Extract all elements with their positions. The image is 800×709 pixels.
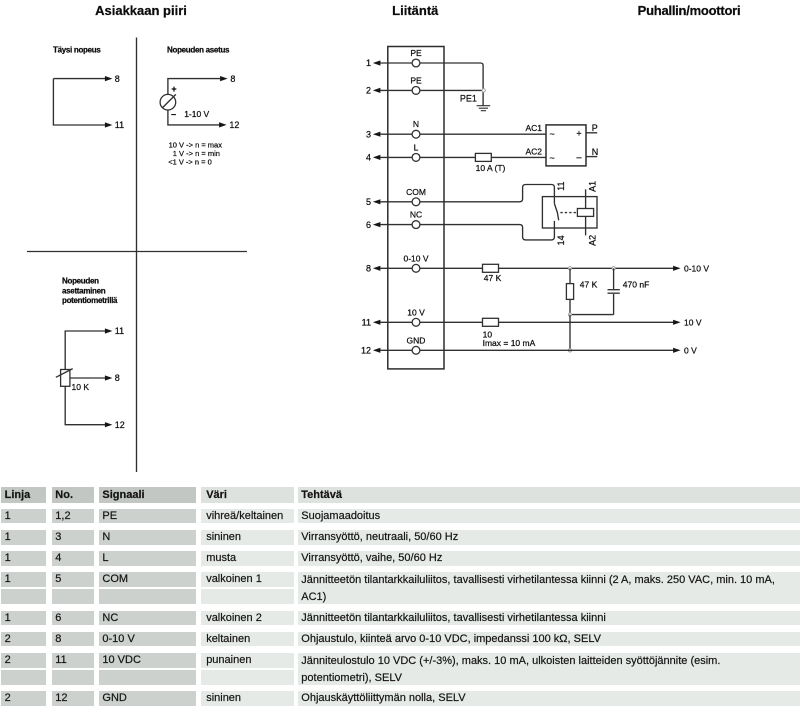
svg-text:Puhallin/moottori: Puhallin/moottori	[638, 3, 741, 18]
svg-text:A1: A1	[587, 181, 597, 192]
svg-text:–: –	[171, 109, 176, 119]
series resistor 47 K	[483, 264, 499, 272]
svg-text:8: 8	[366, 264, 371, 274]
svg-text:8: 8	[115, 373, 120, 383]
svg-text:11: 11	[115, 120, 124, 130]
svg-text:11: 11	[362, 318, 371, 328]
wire: fuse to rectifier AC2	[491, 156, 546, 158]
svg-text:+: +	[171, 84, 176, 94]
table row 4: COM (two lines)	[1, 572, 46, 587]
svg-text:10 V: 10 V	[407, 307, 425, 317]
svg-text:14: 14	[556, 235, 566, 245]
wire: NC terminal 6 to relay pin 14	[444, 225, 554, 240]
table row 6: 0-10 V	[1, 632, 46, 647]
svg-text:11: 11	[556, 181, 566, 190]
svg-text:8: 8	[115, 74, 120, 84]
svg-text:2: 2	[366, 86, 371, 96]
arrowhead to 12	[219, 122, 227, 127]
svg-text:10 K: 10 K	[72, 382, 90, 392]
series resistor 10	[483, 318, 499, 326]
node PE1 junction	[482, 89, 485, 92]
junction at shunt resistor top	[568, 267, 571, 270]
terminal circle 6	[412, 221, 420, 229]
wire: source bottom to 12	[168, 110, 220, 125]
junction at capacitor top	[612, 267, 615, 270]
terminal circle 4	[412, 154, 420, 162]
svg-text:PE: PE	[410, 48, 422, 58]
wire: pot wiper to 8	[70, 377, 105, 379]
relay contact box K1	[542, 197, 597, 228]
wire: full-speed bridge 8 to 11	[53, 79, 105, 125]
svg-text:Täysi nopeus: Täysi nopeus	[53, 46, 101, 55]
svg-text:<1 V -> n = 0: <1 V -> n = 0	[168, 157, 212, 166]
wire: P output stub	[586, 132, 597, 134]
wire: terminal 11 to series resistor	[444, 321, 483, 323]
wire: terminal 12 to 0 V output	[444, 349, 674, 351]
shunt resistor 47 K vertical	[569, 268, 571, 314]
arrowhead to 11	[105, 122, 113, 127]
fuse F1 10 A (T)	[475, 153, 491, 161]
terminal circle 8	[412, 264, 420, 272]
terminal 6 wire and arrow	[380, 224, 444, 226]
terminal strip box X1	[388, 47, 444, 369]
terminal 5 wire and arrow	[380, 201, 444, 203]
voltage source slash	[163, 94, 176, 107]
table row 2: N	[1, 530, 46, 545]
terminal circle 3	[412, 130, 420, 138]
wire: N output stub	[586, 156, 597, 158]
table row 8: GND	[1, 691, 46, 706]
svg-text:L: L	[414, 142, 419, 152]
relay pin 11 stub	[553, 197, 555, 204]
arrowhead to 8	[105, 375, 113, 380]
schematic SVG	[0, 0, 800, 486]
svg-text:N: N	[413, 119, 419, 129]
svg-text:PE1: PE1	[460, 93, 477, 103]
svg-text:Liitäntä: Liitäntä	[392, 3, 439, 18]
svg-text:4: 4	[366, 153, 371, 163]
svg-text:10 V: 10 V	[684, 317, 702, 327]
svg-text:Nopeuden: Nopeuden	[62, 276, 99, 285]
svg-text:Imax = 10 mA: Imax = 10 mA	[483, 338, 536, 348]
svg-text:Nopeuden asetus: Nopeuden asetus	[167, 46, 230, 55]
svg-text:470 nF: 470 nF	[623, 279, 649, 289]
terminal 3 wire and arrow	[380, 133, 444, 135]
svg-text:COM: COM	[406, 187, 426, 197]
svg-text:12: 12	[361, 346, 371, 356]
terminal circle 12	[412, 346, 420, 354]
terminal circle 2	[412, 87, 420, 95]
svg-text:47 K: 47 K	[484, 273, 502, 283]
divider: horizontal	[27, 251, 247, 253]
capacitor 470 nF	[613, 268, 615, 289]
wire: PE1 node to earth	[482, 90, 484, 105]
wire: terminal 8 to series resistor	[444, 267, 483, 269]
svg-text:GND: GND	[407, 335, 426, 345]
rectifier / power unit U1	[546, 125, 586, 166]
table row 3: L	[1, 551, 46, 566]
svg-text:AC2: AC2	[525, 146, 542, 156]
svg-text:12: 12	[115, 420, 125, 430]
terminal 2 wire and arrow	[380, 89, 444, 91]
svg-text:~: ~	[550, 153, 555, 163]
wire: RC bottom down to 0 V line	[569, 315, 571, 351]
wire: pot top to 11	[65, 331, 105, 370]
divider: vertical	[136, 38, 138, 473]
arrowhead to 8	[220, 76, 228, 81]
svg-text:NC: NC	[410, 210, 422, 220]
wire: terminal 4 (L) to fuse	[444, 156, 475, 158]
junction on 0 V line	[568, 349, 571, 352]
voltage source 1-10 V	[160, 94, 176, 110]
svg-text:10 A (T): 10 A (T)	[476, 163, 506, 173]
svg-text:3: 3	[366, 129, 371, 139]
svg-text:0-10 V: 0-10 V	[684, 263, 709, 273]
wire: terminal 3 (N) to rectifier AC1	[444, 133, 546, 135]
svg-text:5: 5	[366, 197, 371, 207]
svg-text:AC1: AC1	[525, 123, 542, 133]
earth ground symbol	[477, 106, 491, 111]
terminal circle 1	[412, 59, 420, 67]
terminal 8 wire and arrow	[380, 267, 444, 269]
terminal 12 wire and arrow	[380, 349, 444, 351]
svg-text:PE: PE	[410, 75, 422, 85]
svg-text:potentiometrillä: potentiometrillä	[62, 296, 118, 305]
relay actuator dashed link	[560, 212, 577, 214]
relay coil A2 lead	[585, 216, 587, 235]
potentiometer R 10 K body	[61, 370, 70, 387]
svg-text:11: 11	[115, 326, 124, 336]
svg-text:1: 1	[366, 58, 371, 68]
svg-text:8: 8	[230, 74, 235, 84]
relay pin 14 stub	[553, 221, 555, 228]
svg-text:0 V: 0 V	[684, 345, 697, 355]
svg-text:–: –	[576, 152, 581, 162]
arrowhead 0 V output	[673, 348, 681, 353]
terminal 4 wire and arrow	[380, 156, 444, 158]
arrowhead to 12	[105, 422, 113, 427]
svg-text:Asiakkaan piiri: Asiakkaan piiri	[95, 3, 187, 18]
relay coil A1 lead	[585, 189, 587, 208]
potentiometer wiper diagonal	[56, 369, 73, 378]
relay coil body	[577, 209, 593, 217]
arrowhead 0-10 V output	[673, 266, 681, 271]
table header row	[1, 487, 46, 503]
svg-text:47 K: 47 K	[580, 279, 598, 289]
svg-text:0-10 V: 0-10 V	[403, 253, 428, 263]
svg-text:+: +	[576, 129, 581, 139]
junction at RC bottom	[568, 313, 571, 316]
svg-text:N: N	[592, 147, 599, 157]
wire: resistor to 0-10 V output	[499, 267, 674, 269]
terminal circle 11	[412, 318, 420, 326]
wire: PE terminal 2 to PE1 node	[444, 89, 483, 91]
wire: COM terminal 5 to relay pin 11	[444, 185, 554, 202]
wire: PE terminal 1 to PE1 node	[444, 63, 483, 90]
svg-text:P: P	[592, 123, 598, 133]
svg-text:1-10 V: 1-10 V	[184, 109, 209, 119]
svg-text:asettaminen: asettaminen	[62, 286, 106, 295]
terminal 11 wire and arrow	[380, 321, 444, 323]
svg-text:12: 12	[229, 120, 239, 130]
arrowhead to 11	[105, 328, 113, 333]
svg-text:~: ~	[550, 129, 555, 139]
arrowhead 10 V output	[673, 320, 681, 325]
relay contact blade	[554, 204, 558, 221]
table row 5: NC	[1, 611, 46, 626]
table row 7: 10 VDC (two lines)	[1, 653, 46, 668]
arrowhead to 8	[105, 76, 113, 81]
wire: RC bottom bus	[570, 314, 614, 316]
table row 1: PE	[1, 509, 46, 524]
terminal 1 wire and arrow	[380, 62, 444, 64]
svg-text:6: 6	[366, 220, 371, 230]
wire: resistor to 10 V output	[499, 321, 674, 323]
wire: pot bottom to 12	[65, 386, 105, 424]
terminal circle 5	[412, 198, 420, 206]
wire: source top to 8	[168, 79, 221, 95]
svg-text:A2: A2	[587, 235, 597, 246]
